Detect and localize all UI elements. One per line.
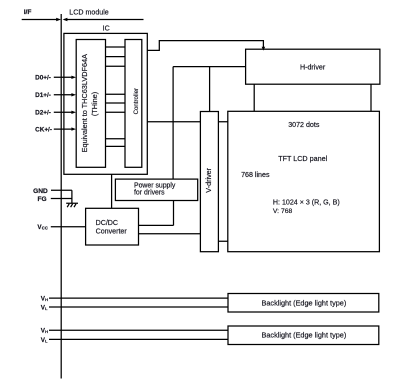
- svg-text:L: L: [45, 338, 48, 343]
- svg-text:CK+/-: CK+/-: [35, 126, 52, 133]
- svg-text:L: L: [45, 306, 48, 311]
- svg-text:H: 1024 × 3 (R, G, B): H: 1024 × 3 (R, G, B): [273, 199, 340, 207]
- svg-text:768 lines: 768 lines: [241, 171, 270, 179]
- svg-text:Backlight (Edge light type): Backlight (Edge light type): [262, 298, 347, 307]
- svg-text:(THine): (THine): [90, 92, 99, 116]
- svg-text:GND: GND: [33, 188, 48, 195]
- svg-text:Backlight (Edge light type): Backlight (Edge light type): [262, 331, 347, 340]
- svg-text:D2+/-: D2+/-: [35, 110, 51, 117]
- svg-text:D1+/-: D1+/-: [35, 92, 51, 99]
- svg-text:for drivers: for drivers: [134, 190, 165, 197]
- svg-text:Converter: Converter: [96, 228, 128, 236]
- svg-text:V-driver: V-driver: [204, 167, 213, 192]
- svg-text:IC: IC: [103, 25, 110, 33]
- svg-text:H: H: [45, 329, 48, 334]
- svg-text:3072 dots: 3072 dots: [288, 121, 320, 129]
- svg-text:Power supply: Power supply: [134, 183, 176, 190]
- svg-text:FG: FG: [38, 196, 47, 203]
- svg-text:LCD module: LCD module: [69, 8, 108, 16]
- svg-text:H: H: [45, 297, 48, 302]
- svg-text:DC/DC: DC/DC: [96, 219, 118, 227]
- svg-text:Controller: Controller: [133, 88, 140, 114]
- svg-text:V: 768: V: 768: [273, 208, 293, 215]
- svg-text:TFT LCD panel: TFT LCD panel: [278, 154, 327, 163]
- svg-text:CC: CC: [42, 226, 48, 231]
- svg-text:Equivalent to THC63LVDF64A: Equivalent to THC63LVDF64A: [80, 54, 89, 152]
- svg-text:D0+/-: D0+/-: [35, 75, 51, 82]
- svg-text:I/F: I/F: [24, 9, 32, 16]
- svg-text:H-driver: H-driver: [300, 63, 326, 71]
